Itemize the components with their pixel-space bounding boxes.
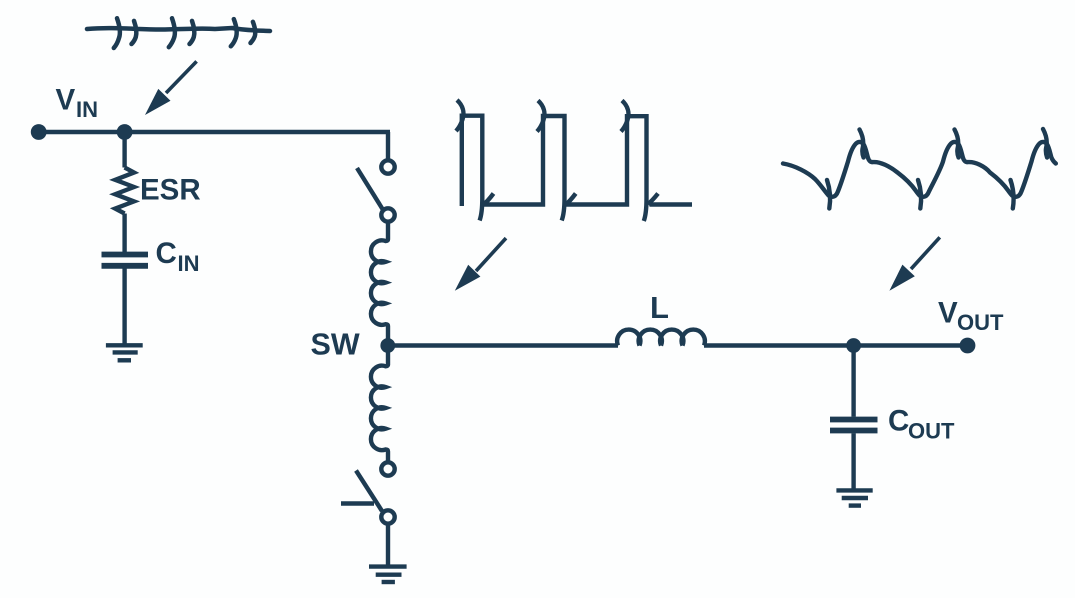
svg-text:V: V [938,297,958,330]
svg-text:ESR: ESR [140,174,201,207]
svg-text:L: L [650,290,669,325]
svg-text:OUT: OUT [908,419,955,444]
svg-text:OUT: OUT [957,310,1004,335]
svg-text:C: C [888,405,909,438]
svg-text:C: C [156,237,177,270]
svg-text:V: V [56,84,76,117]
svg-text:SW: SW [311,328,360,362]
svg-text:IN: IN [76,97,98,122]
svg-text:IN: IN [178,251,200,276]
